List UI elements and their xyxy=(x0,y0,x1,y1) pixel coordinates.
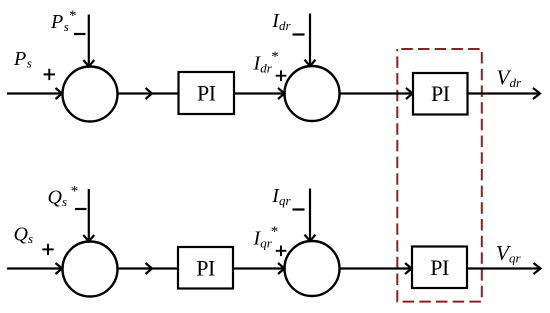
PI block PI4 xyxy=(412,247,467,289)
svg-text:qr: qr xyxy=(279,193,292,208)
svg-text:*: * xyxy=(271,224,279,240)
svg-text:Q: Q xyxy=(48,186,63,208)
svg-text:PI: PI xyxy=(197,81,216,106)
label Iqr xyxy=(271,185,291,208)
svg-text:dr: dr xyxy=(510,75,523,90)
minus sign (Idr) xyxy=(293,33,305,35)
svg-text:dr: dr xyxy=(279,18,292,33)
plus sign at summing junction S4 xyxy=(276,246,287,257)
label Idr* reference xyxy=(253,49,279,76)
arrowhead Iqr into S4 xyxy=(305,235,316,241)
dashed boundary box (rotor voltage outputs) xyxy=(397,49,482,302)
summing junction S3 xyxy=(63,242,118,297)
wire Ps input xyxy=(7,92,61,94)
svg-text:PI: PI xyxy=(430,255,449,280)
minus sign (Iqr) xyxy=(293,208,305,210)
arrowhead mid-wire S1-PI1 xyxy=(146,88,153,99)
minus sign (Ps*) xyxy=(74,33,86,35)
svg-text:*: * xyxy=(71,183,79,199)
label Vqr xyxy=(496,241,522,266)
svg-text:*: * xyxy=(69,8,77,24)
svg-text:PI: PI xyxy=(431,81,450,106)
label Ps xyxy=(13,48,32,71)
wire Idr drop xyxy=(309,14,311,65)
svg-text:PI: PI xyxy=(196,255,215,280)
wire PI3 to S4 xyxy=(233,267,284,269)
wire S3 to PI3 xyxy=(118,267,179,269)
arrowhead mid-wire S3-PI3 xyxy=(146,263,153,274)
wire S1 to PI1 xyxy=(118,92,179,94)
PI block PI2 xyxy=(413,73,468,115)
wire Qs input xyxy=(7,267,61,269)
wire Iqr drop xyxy=(309,189,311,240)
arrowhead into S1 xyxy=(56,88,63,99)
wire S4 to PI4 xyxy=(340,267,411,269)
wire output Vdr xyxy=(468,92,540,94)
arrowhead into PI2 xyxy=(406,88,413,99)
wire PI1 to S2 xyxy=(234,92,284,94)
PI block PI3 xyxy=(178,247,233,289)
svg-text:P: P xyxy=(13,48,26,70)
wire S2 to PI2 xyxy=(340,92,412,94)
svg-text:*: * xyxy=(271,49,279,65)
arrowhead into S2 xyxy=(278,88,285,99)
svg-text:s: s xyxy=(62,194,67,209)
label Ps* reference xyxy=(50,8,77,34)
arrowhead into S3 xyxy=(56,263,63,274)
svg-text:s: s xyxy=(28,231,33,246)
minus sign (Qs*) xyxy=(75,208,87,210)
wire output Vqr xyxy=(467,267,540,269)
arrowhead Ps* into S1 xyxy=(83,60,94,66)
svg-text:Q: Q xyxy=(14,224,29,246)
wire Qs* drop xyxy=(88,189,90,240)
summing junction S4 xyxy=(285,241,340,296)
arrowhead Idr into S2 xyxy=(305,60,316,66)
svg-text:P: P xyxy=(50,11,63,33)
svg-text:s: s xyxy=(27,56,32,71)
label Qs xyxy=(14,224,34,247)
label Idr xyxy=(271,10,291,33)
summing junction S2 xyxy=(285,66,340,121)
arrowhead into S4 xyxy=(278,263,285,274)
plus sign at summing junction S2 xyxy=(276,70,287,81)
plus sign at summing junction S1 xyxy=(44,69,55,80)
arrowhead output Vqr xyxy=(534,263,541,274)
PI block PI1 xyxy=(179,72,235,114)
svg-text:qr: qr xyxy=(509,251,522,266)
summing junction S1 xyxy=(63,67,118,122)
arrowhead into PI4 xyxy=(405,263,412,274)
label Qs* reference xyxy=(48,183,79,209)
plus sign at summing junction S3 xyxy=(42,244,53,255)
label Vdr xyxy=(497,66,523,91)
label Iqr* reference xyxy=(253,224,279,251)
arrowhead Qs* into S3 xyxy=(83,235,94,241)
arrowhead output Vdr xyxy=(533,88,540,99)
wire Ps* drop xyxy=(88,15,90,66)
